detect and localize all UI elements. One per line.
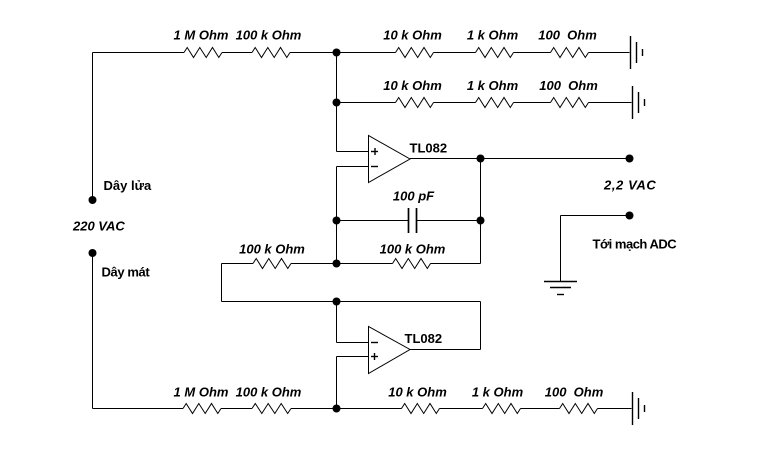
resistor 100 k Ohm (top divider) <box>252 48 290 58</box>
wire: op-amp U2 + input <box>337 356 369 358</box>
wire: left vertical from live terminal up to top chain <box>92 53 94 201</box>
ground (ADC reference) <box>544 282 577 295</box>
svg-text:100 Ohm: 100 Ohm <box>538 28 597 43</box>
svg-text:10 k Ohm: 10 k Ohm <box>388 385 447 400</box>
op-amp U2 TL082 <box>369 327 411 374</box>
wire <box>290 52 337 54</box>
wire: vertical - input to node A <box>336 167 338 264</box>
wire: row 2 chain <box>337 102 396 104</box>
op-amp U1 TL082 <box>369 136 411 183</box>
resistor 100 Ohm (bottom) <box>560 404 598 414</box>
wire: bottom chain segment <box>93 408 184 410</box>
node: U1 output junction <box>477 155 485 163</box>
svg-text:10 k Ohm: 10 k Ohm <box>383 78 442 93</box>
node: top divider junction <box>333 49 341 57</box>
svg-text:2,2 VAC: 2,2 VAC <box>603 178 656 193</box>
terminal: 2.2 VAC output <box>626 155 634 163</box>
wire <box>431 263 481 265</box>
wire: ADC reference <box>561 215 630 217</box>
svg-text:Dây lửa: Dây lửa <box>104 178 152 193</box>
node: capacitor left <box>333 217 341 225</box>
ground (row 2) <box>633 86 645 119</box>
wire <box>337 263 393 265</box>
wire: capacitor right lead <box>417 220 481 222</box>
resistor 10 k Ohm (row 1) <box>396 48 434 58</box>
wire: op-amp U2 - input <box>337 342 369 344</box>
wire <box>291 408 337 410</box>
node: row 2 junction <box>333 99 341 107</box>
node B: U2 feedback junction <box>333 298 341 306</box>
node: bottom divider junction <box>333 405 341 413</box>
capacitor 100 pF <box>409 208 417 233</box>
svg-text:Tới mạch ADC: Tới mạch ADC <box>593 237 678 252</box>
svg-text:TL082: TL082 <box>410 141 448 156</box>
svg-text:100 k Ohm: 100 k Ohm <box>380 242 446 257</box>
wire <box>434 52 476 54</box>
svg-text:1 M Ohm: 1 M Ohm <box>174 28 229 43</box>
wire: vertical U2 feedback <box>480 302 482 350</box>
wire <box>589 102 632 104</box>
svg-text:100 k Ohm: 100 k Ohm <box>236 385 302 400</box>
wire <box>222 52 252 54</box>
resistor 100 k Ohm (feedback) <box>393 259 431 269</box>
terminal: to ADC <box>626 212 634 220</box>
svg-text:220 VAC: 220 VAC <box>72 219 125 234</box>
wire: node B down to U2 - input <box>336 302 338 343</box>
wire <box>337 52 396 54</box>
resistor 10 k Ohm (bottom) <box>402 404 440 414</box>
resistor 1 k Ohm (row 1) <box>476 48 514 58</box>
wire: capacitor left lead <box>337 220 409 222</box>
wire <box>222 263 254 265</box>
wire: node B row left segment <box>222 301 337 303</box>
wire <box>291 263 337 265</box>
resistor 100 Ohm (row 2) <box>551 98 589 108</box>
wire: ground stem <box>560 216 562 282</box>
terminal: Day lua (live) <box>89 196 97 204</box>
wire: U2 output <box>410 349 481 351</box>
resistor 100 Ohm (row 1) <box>551 48 589 58</box>
svg-text:TL082: TL082 <box>405 331 443 346</box>
resistor 1 k Ohm (bottom) <box>483 404 521 414</box>
wire: op-amp U1 + input <box>337 151 369 153</box>
wire <box>521 408 560 410</box>
svg-text:100 Ohm: 100 Ohm <box>539 78 598 93</box>
wire <box>598 408 632 410</box>
node: capacitor right <box>477 217 485 225</box>
svg-text:100 Ohm: 100 Ohm <box>545 385 604 400</box>
ground (row 1) <box>631 36 643 69</box>
wire <box>514 52 551 54</box>
svg-text:1 k Ohm: 1 k Ohm <box>467 78 519 93</box>
wire: left vertical neutral down to bottom chain <box>92 253 94 409</box>
wire <box>221 408 252 410</box>
wire: vertical node column to op-amp + input <box>336 53 338 152</box>
svg-text:1 M Ohm: 1 M Ohm <box>174 385 229 400</box>
wire: U1 output to terminal <box>410 158 630 160</box>
svg-text:10 k Ohm: 10 k Ohm <box>383 28 442 43</box>
resistor 1 k Ohm (row 2) <box>476 98 514 108</box>
wire: node B row right segment <box>337 301 481 303</box>
wire: U2 + input down to bottom chain <box>336 357 338 409</box>
resistor 100 k Ohm (input to node A) <box>253 259 291 269</box>
wire: op-amp U1 - input <box>337 166 369 168</box>
wire: top chain segment <box>93 52 185 54</box>
svg-text:1 k Ohm: 1 k Ohm <box>472 385 524 400</box>
svg-text:100 pF: 100 pF <box>393 189 435 204</box>
wire: vertical U1 output down to feedback resistor <box>480 159 482 264</box>
wire <box>337 408 402 410</box>
svg-text:100 k Ohm: 100 k Ohm <box>239 242 305 257</box>
wire: vertical left of loop <box>221 264 223 302</box>
node A: summing junction <box>333 260 341 268</box>
terminal: Day mat (neutral) <box>89 249 97 257</box>
wire <box>440 408 483 410</box>
resistor 1 M Ohm (top divider) <box>184 48 222 58</box>
wire <box>434 102 476 104</box>
resistor 10 k Ohm (row 2) <box>396 98 434 108</box>
resistor 100 k Ohm (bottom divider) <box>252 404 291 414</box>
svg-text:100 k Ohm: 100 k Ohm <box>236 28 302 43</box>
ground (bottom chain) <box>633 392 645 425</box>
svg-text:1 k Ohm: 1 k Ohm <box>467 28 519 43</box>
wire <box>514 102 551 104</box>
resistor 1 M Ohm (bottom divider) <box>183 404 221 414</box>
wire <box>589 52 630 54</box>
svg-text:Dây mát: Dây mát <box>102 265 151 280</box>
